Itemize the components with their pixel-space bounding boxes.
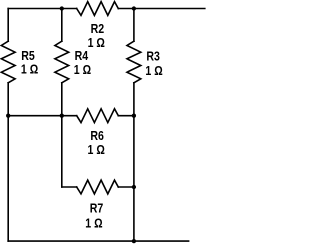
svg-text:1 Ω: 1 Ω: [85, 216, 102, 230]
svg-text:R2: R2: [91, 22, 105, 36]
resistor R6: [77, 109, 119, 123]
wire R7 row left: [62, 186, 77, 188]
resistor R4: [55, 41, 69, 83]
junction node mid left: [6, 114, 10, 118]
wire right branch lower: [133, 83, 135, 241]
resistor R3: [127, 41, 141, 83]
svg-text:1 Ω: 1 Ω: [88, 36, 105, 50]
wire top: R2 to right edge: [118, 8, 205, 10]
wire middle branch upper: [61, 9, 63, 42]
junction node mid middle: [60, 114, 64, 118]
svg-text:1 Ω: 1 Ω: [21, 63, 38, 77]
junction node R7 right: [132, 185, 136, 189]
wire right branch upper: [133, 9, 135, 42]
resistor R5: [1, 41, 15, 83]
svg-text:R7: R7: [90, 202, 104, 216]
svg-text:R6: R6: [90, 129, 104, 143]
svg-text:1 Ω: 1 Ω: [88, 143, 105, 157]
svg-text:1 Ω: 1 Ω: [145, 64, 162, 78]
junction node top middle: [60, 6, 64, 10]
wire top: left corner to R2: [8, 8, 77, 10]
wire middle branch lower: [61, 83, 63, 187]
wire R6 row left: [8, 115, 77, 117]
svg-text:R4: R4: [75, 49, 89, 63]
svg-text:R3: R3: [146, 50, 160, 64]
resistor R7: [77, 180, 119, 194]
wire R6 row right: [118, 115, 134, 117]
wire left branch upper: [7, 9, 9, 42]
junction node mid right: [132, 114, 136, 118]
svg-text:R5: R5: [21, 49, 35, 63]
svg-text:1 Ω: 1 Ω: [74, 63, 91, 77]
junction node bottom right: [132, 239, 136, 243]
junction node top right: [132, 6, 136, 10]
resistor R2: [77, 2, 119, 16]
wire left branch lower: [7, 83, 9, 241]
wire bottom: [8, 240, 188, 242]
wire R7 row right: [118, 186, 134, 188]
